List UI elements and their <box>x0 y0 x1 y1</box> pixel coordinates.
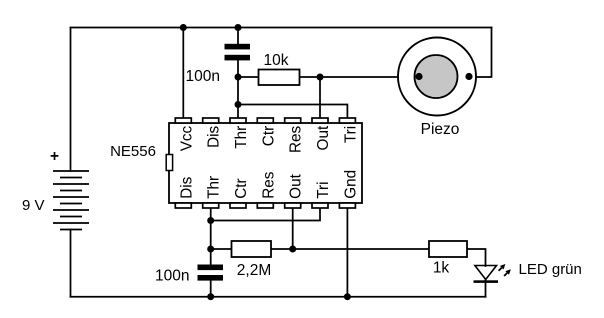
svg-text:2,2M: 2,2M <box>237 262 271 279</box>
wire R2 right to R3 left <box>271 248 429 250</box>
svg-text:Dis: Dis <box>206 125 223 147</box>
pin Ctr (top row) <box>257 118 273 123</box>
bottom pins <box>175 203 355 208</box>
wire Out top pin up to node <box>319 77 321 118</box>
wire node to R2 left <box>211 248 232 250</box>
svg-text:Vcc: Vcc <box>178 125 195 151</box>
capacitor C1 100n (top) <box>225 44 251 61</box>
pin Res (top row) <box>285 118 301 123</box>
svg-text:Res: Res <box>288 125 305 153</box>
svg-text:Thr: Thr <box>206 176 223 199</box>
wire right vertical to piezo <box>469 28 492 78</box>
pin-1 marker <box>166 155 172 171</box>
node Out-top/R1/piezo <box>317 74 324 81</box>
pin Dis (top row) <box>203 118 219 123</box>
svg-text:Tri: Tri <box>315 182 332 199</box>
wire bottom rail <box>71 296 486 298</box>
node Vcc/top rail <box>180 24 187 31</box>
svg-text:Gnd: Gnd <box>342 170 359 199</box>
svg-text:10k: 10k <box>264 52 289 69</box>
svg-text:100n: 100n <box>155 268 189 285</box>
svg-text:Ctr: Ctr <box>260 126 277 146</box>
svg-text:+: + <box>50 148 59 165</box>
svg-text:Tri: Tri <box>342 126 359 143</box>
pin Thr (bottom row) <box>203 203 219 208</box>
wire C1 bottom plate down to Thr top pin <box>237 60 239 118</box>
wire Out bottom pin down to node <box>292 208 294 249</box>
LED light arrows <box>499 264 511 276</box>
svg-text:LED grün: LED grün <box>519 261 582 278</box>
pin labels top row <box>178 125 359 153</box>
node Thr-top/R1 <box>235 74 242 81</box>
pin labels bottom row <box>178 170 359 199</box>
node Out-bottom/R2 <box>289 246 296 253</box>
LED D1 <box>474 264 511 283</box>
wire R3 right to LED anode <box>467 249 486 266</box>
node Gnd/bottom rail <box>344 293 351 300</box>
svg-text:Dis: Dis <box>178 176 195 198</box>
svg-text:100n: 100n <box>186 68 220 85</box>
pin Tri (bottom row) <box>312 203 328 208</box>
node Thr-bottom/Tri-bottom <box>207 217 214 224</box>
svg-text:NE556: NE556 <box>110 143 156 160</box>
top pins <box>175 118 355 123</box>
pin Vcc (top row) <box>175 118 191 123</box>
svg-text:9 V: 9 V <box>22 197 45 214</box>
wire top rail to C1 top plate <box>237 28 239 45</box>
resistor R1 10k <box>259 70 300 86</box>
wire R1 right to piezo left terminal <box>300 76 420 78</box>
pin Tri (top row) <box>339 118 355 123</box>
svg-text:Out: Out <box>315 125 332 150</box>
node Thr-bottom/R2 <box>207 246 214 253</box>
resistor R2 2,2M <box>232 241 272 257</box>
wire battery minus to bottom rail <box>70 230 72 297</box>
pin Ctr (bottom row) <box>230 203 246 208</box>
svg-text:Res: Res <box>260 171 277 199</box>
pin Gnd (bottom row) <box>339 203 355 208</box>
pin Out (bottom row) <box>285 203 301 208</box>
wire Tri bottom pin to Thr bottom node <box>211 208 320 221</box>
pin Thr (top row) <box>230 118 246 123</box>
wire node to R1 left <box>238 76 259 78</box>
wire left vertical (battery +) <box>70 28 72 172</box>
pin Dis (bottom row) <box>175 203 191 208</box>
wire top rail <box>71 27 492 29</box>
capacitor C2 100n (bottom) <box>198 265 224 281</box>
pin Res (bottom row) <box>257 203 273 208</box>
wire C2 bottom plate to bottom rail <box>210 281 212 297</box>
piezo transducer <box>398 38 476 116</box>
wire Vcc pin to top rail <box>182 28 184 119</box>
junction dots <box>180 24 351 300</box>
svg-text:Piezo: Piezo <box>421 121 460 138</box>
svg-text:Out: Out <box>288 173 305 198</box>
battery B1 9V <box>53 171 89 230</box>
svg-text:1k: 1k <box>433 260 450 277</box>
svg-text:Thr: Thr <box>233 126 250 149</box>
node Thr-top/Tri-top <box>235 101 242 108</box>
node C2/bottom rail <box>207 293 214 300</box>
IC U1 NE556 <box>110 118 362 208</box>
pin Out (top row) <box>312 118 328 123</box>
wire Thr bottom pin down <box>210 208 212 265</box>
resistor R3 1k <box>429 241 467 257</box>
wire LED cathode to bottom rail <box>485 280 487 297</box>
node C1/top rail <box>235 24 242 31</box>
svg-text:Ctr: Ctr <box>233 178 250 198</box>
wire Thr-top node to Tri top pin <box>238 105 347 119</box>
wire Gnd pin to bottom rail <box>346 208 348 297</box>
